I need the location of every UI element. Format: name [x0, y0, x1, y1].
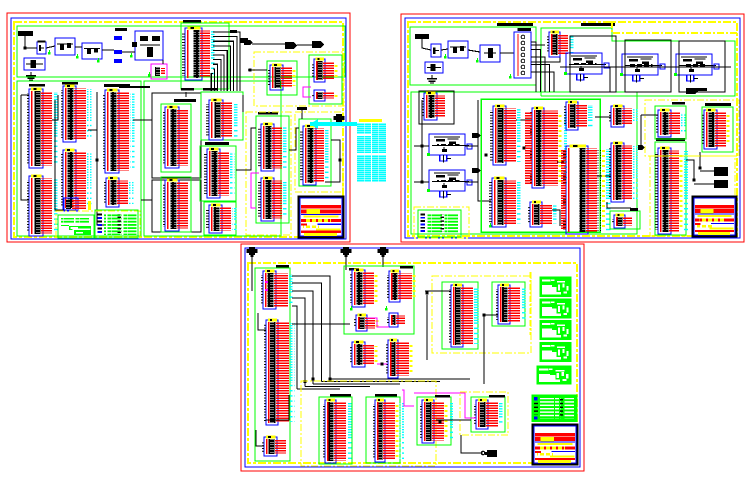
junction: [523, 147, 526, 150]
frame: [204, 202, 236, 235]
EEPROM U20: [268, 64, 295, 90]
label: [489, 395, 505, 398]
opto coupler ISO2: [694, 180, 728, 188]
green wire marker: [148, 72, 151, 77]
wire: [531, 44, 545, 46]
output U50: [420, 399, 453, 443]
wire: [141, 199, 152, 201]
UART U46: [449, 284, 479, 347]
wire: [21, 94, 29, 96]
green wire marker: [130, 53, 133, 58]
wire: [88, 129, 97, 131]
junction: [483, 314, 486, 317]
frame: [610, 211, 640, 229]
title block TB3: [533, 425, 578, 465]
green wire marker: [509, 74, 512, 79]
sheet 2 title text: [497, 23, 533, 26]
green wire marker: [444, 54, 447, 59]
wire: [590, 175, 611, 177]
transistor Q1 box: [480, 45, 500, 62]
bus wire: [119, 86, 150, 88]
wire: [641, 114, 658, 116]
frame: [267, 61, 297, 95]
wire: [414, 181, 429, 183]
power plug P3: [341, 247, 352, 257]
wire: [102, 49, 114, 51]
wire: [55, 100, 64, 210]
magenta link: [377, 363, 387, 365]
port U29: [564, 101, 593, 130]
wire: [301, 110, 303, 119]
test pad TP3: [114, 59, 122, 63]
magenta option box: [151, 64, 167, 79]
latch U15: [204, 148, 235, 198]
bus wire: [305, 386, 370, 388]
green wire marker: [385, 306, 388, 311]
sheet 2 inner border (blue): [405, 18, 740, 238]
wire: [256, 430, 264, 446]
address bus fan-out: [211, 32, 240, 91]
green wire marker: [476, 58, 479, 63]
net flag: [244, 40, 253, 45]
power rail label: [415, 34, 429, 39]
power plug P2: [247, 247, 258, 257]
net flag A: [285, 42, 297, 49]
buffer U44: [350, 341, 377, 367]
RAM U5: [27, 88, 58, 168]
junction: [699, 167, 702, 170]
title block TB1: [299, 197, 344, 238]
wire: [461, 435, 483, 453]
gate U24: [547, 31, 574, 57]
supervisor box outline: [132, 42, 137, 47]
schematic sheet 3 border (red): [241, 244, 584, 471]
frame: [471, 397, 505, 432]
sheet 2 title text 2: [581, 23, 615, 26]
junction: [485, 154, 488, 157]
wire: [133, 119, 152, 121]
relay row wire: [560, 66, 731, 68]
wire: [686, 160, 694, 180]
bus fan-out: [292, 276, 330, 389]
capacitor C1 network: [24, 58, 45, 70]
buffer U45: [386, 339, 412, 378]
driver U47: [496, 284, 526, 324]
buffer U26: [489, 177, 522, 227]
green wire marker: [350, 306, 353, 311]
junction: [426, 292, 429, 295]
connector arrow: [481, 451, 485, 455]
relay K2: [620, 54, 665, 83]
gate U42: [354, 314, 378, 331]
magenta route: [402, 390, 414, 406]
microcontroller U4: [182, 27, 216, 80]
sheet 3 left frame: [255, 268, 290, 461]
junction: [439, 421, 442, 424]
wire: [162, 60, 164, 64]
frame: [319, 397, 352, 464]
schematic sheet 1 border (red): [7, 13, 350, 242]
relay K4: [427, 134, 472, 163]
label: [174, 99, 196, 102]
junction: [421, 181, 424, 184]
gate U35: [656, 109, 686, 137]
CPU U34: [655, 147, 688, 234]
wire: [422, 38, 431, 50]
gate U43: [387, 313, 405, 327]
junction: [693, 179, 696, 182]
sheet 1 mid section frame: [144, 81, 281, 236]
label: [349, 268, 359, 271]
test pad TP1: [114, 36, 122, 40]
decoder U10: [103, 89, 135, 173]
gate U31: [609, 105, 638, 127]
junction: [381, 363, 384, 366]
RAM U6: [27, 175, 58, 236]
wire: [122, 51, 135, 53]
ROM U7: [61, 85, 92, 142]
peripheral container 2: [152, 180, 201, 232]
lower option region: [246, 112, 291, 235]
ROM U8: [61, 149, 92, 210]
crystal cap: [38, 41, 46, 43]
frame: [655, 106, 686, 139]
option part U9: [64, 198, 91, 211]
wire: [426, 295, 428, 360]
net flag: [472, 168, 481, 173]
frame: [309, 55, 342, 104]
wire: [595, 116, 611, 118]
label: [630, 208, 638, 211]
label: [705, 103, 731, 106]
cyan netlist table: [357, 119, 386, 182]
gate U33: [612, 214, 632, 228]
flag column yellow margin: [530, 272, 532, 335]
frame: [702, 107, 733, 152]
IO flag table F4: [540, 343, 571, 362]
sheet 3 inner border (blue): [245, 248, 580, 467]
wire: [46, 46, 55, 48]
buffer U40: [350, 269, 377, 307]
bus fan-out: [531, 42, 554, 92]
power rail label: [18, 31, 33, 36]
bottom region: [301, 381, 436, 466]
sheet 2 margin (yellow dashed): [408, 22, 737, 236]
sheet 2 main section frame: [411, 92, 637, 234]
wire: [325, 140, 340, 182]
relay container 3: [679, 41, 725, 92]
wire: [421, 100, 423, 182]
buffer U14: [206, 99, 238, 140]
latch U16: [206, 204, 237, 233]
label: [115, 28, 127, 31]
column bus wire: [21, 95, 29, 200]
frame: [200, 146, 236, 201]
crystal Y1: [37, 42, 46, 54]
label: [656, 138, 685, 141]
cyan netlist arrow: [310, 119, 357, 129]
bus wire: [313, 383, 400, 385]
option region: [254, 52, 344, 106]
green wire marker: [489, 223, 492, 228]
driver U19: [300, 125, 330, 185]
frame: [161, 104, 191, 172]
sheet 1 top section frame: [17, 26, 345, 77]
wire: [609, 67, 611, 92]
magenta route 2: [414, 393, 476, 418]
notes table T2: [95, 210, 138, 238]
label: [203, 88, 217, 91]
IO flag table F1: [540, 277, 571, 297]
net flag B: [312, 41, 324, 48]
green wire marker: [97, 58, 100, 63]
wire: [640, 115, 642, 145]
green wire marker: [48, 50, 51, 55]
wire: [252, 43, 285, 45]
sheet 1 inner border (blue): [11, 18, 346, 239]
sheet 2 middle inner frame: [481, 99, 600, 232]
reset circuit U3: [135, 31, 163, 60]
table margin: [414, 207, 469, 238]
power plug P1: [334, 114, 345, 124]
input conn U37: [261, 270, 294, 309]
transceiver U27: [525, 107, 567, 188]
RTC U22: [312, 90, 337, 101]
label: [258, 112, 278, 115]
connector J1: [514, 28, 531, 78]
frame: [442, 282, 478, 349]
counter U32: [609, 142, 638, 202]
wire: [52, 95, 58, 120]
bus wire: [330, 378, 470, 380]
filter U52: [422, 92, 445, 120]
right lower margin: [650, 156, 735, 236]
serial region: [432, 276, 531, 353]
yellow margin step: [612, 21, 738, 33]
driver U17: [258, 123, 288, 171]
relay container: [570, 36, 616, 92]
frame: [161, 177, 191, 232]
plug stem wire: [382, 257, 384, 267]
wire: [242, 95, 244, 112]
label: [375, 394, 397, 397]
junction: [312, 378, 315, 381]
bus wire: [292, 323, 350, 325]
junction: [249, 69, 252, 72]
wire: [441, 49, 448, 50]
IO flag table F5: [537, 366, 571, 384]
input filter container: [419, 91, 454, 124]
wire: [25, 47, 37, 49]
frame: [201, 92, 243, 140]
latch U11: [104, 177, 134, 207]
output U48: [323, 399, 352, 463]
relay container 2: [625, 40, 671, 92]
junction: [96, 159, 99, 162]
wire: [236, 128, 256, 170]
bus wire: [322, 381, 441, 383]
MCU section frame: [181, 23, 229, 89]
PIO U13: [163, 179, 188, 231]
power plug P4: [378, 247, 389, 257]
sheet 2 clock section frame: [410, 27, 536, 85]
relay K3: [674, 54, 719, 83]
net flag: [638, 145, 645, 150]
lower option region 2: [295, 112, 343, 192]
junction: [421, 145, 424, 148]
junction: [329, 378, 332, 381]
wire: [297, 44, 312, 46]
net flag: [686, 88, 698, 94]
wire: [468, 50, 480, 52]
label: [435, 395, 450, 398]
label: [672, 102, 685, 105]
junction: [304, 380, 307, 383]
gate U39: [262, 436, 286, 456]
label: [104, 84, 130, 87]
label: [276, 265, 289, 268]
wire: [607, 202, 631, 208]
opto coupler ISO1: [700, 167, 728, 176]
sheet 3 mid frame: [344, 266, 414, 334]
driver U18: [258, 177, 288, 221]
wire: [484, 314, 498, 316]
small region: [460, 392, 508, 435]
wire: [465, 181, 478, 183]
title block TB2: [693, 197, 737, 237]
magenta link wire: [303, 87, 311, 97]
label: [695, 88, 707, 91]
magenta pin marks: [265, 281, 268, 291]
label: [29, 84, 45, 87]
frame: [417, 397, 451, 445]
wire: [24, 36, 26, 48]
magenta jumper wire: [251, 173, 259, 208]
RTC U21: [312, 58, 337, 82]
schematic sheet 2 border (red): [401, 14, 744, 242]
label: [205, 142, 229, 145]
peripheral container: [152, 93, 201, 178]
label: [181, 88, 194, 91]
wire: [500, 52, 514, 54]
plug stem wire: [251, 257, 253, 291]
frame: [366, 397, 400, 463]
capacitor network C2: [425, 62, 443, 73]
wire: [258, 313, 266, 330]
legend table: [532, 395, 577, 422]
output U49: [373, 399, 404, 462]
notes table T3: [418, 210, 461, 237]
output U51: [474, 399, 504, 429]
magenta link: [367, 318, 389, 327]
IO flag table F2: [540, 299, 571, 318]
wire: [465, 145, 478, 147]
wire: [552, 210, 560, 226]
wire: [97, 92, 106, 225]
sheet 2 right top frame: [541, 28, 735, 96]
green wire marker: [76, 54, 79, 59]
plug P5: [485, 450, 497, 457]
ground: [26, 72, 36, 81]
wire: [425, 290, 451, 292]
junction: [339, 159, 342, 162]
relay K1: [564, 53, 609, 82]
wire: [414, 145, 429, 147]
label: [400, 266, 413, 269]
frame: [492, 282, 525, 326]
wire: [266, 395, 289, 420]
label: [330, 394, 351, 397]
crystal Y2: [431, 44, 441, 57]
frame: [655, 142, 686, 235]
driver U36: [702, 109, 729, 149]
wire: [557, 161, 566, 163]
latch U28: [528, 201, 558, 227]
wire: [699, 152, 701, 168]
wire: [75, 46, 82, 48]
relay K5: [427, 170, 472, 199]
label: [62, 82, 78, 85]
wire: [516, 119, 532, 121]
table margin: [56, 211, 140, 238]
wire: [248, 69, 267, 71]
buffer U41: [387, 270, 415, 302]
label: [230, 30, 237, 33]
wire: [289, 128, 299, 150]
buffer U25: [490, 105, 522, 165]
sheet 3 margin (yellow dashed): [248, 263, 577, 463]
bus wire: [478, 100, 491, 201]
net label: [240, 38, 248, 43]
frame: [256, 116, 289, 223]
wire: [531, 45, 560, 62]
ground: [427, 75, 437, 84]
right region: [645, 100, 739, 156]
net flag: [472, 133, 481, 138]
buffer U2: [82, 43, 102, 59]
net stub: [297, 107, 307, 110]
oscillator U23: [448, 41, 468, 58]
frame: [299, 119, 331, 186]
plug stem wire: [345, 257, 347, 270]
sheet 1 main section frame: [17, 81, 141, 236]
junction: [24, 47, 27, 50]
IO flag table F3: [540, 321, 571, 340]
oscillator U1: [55, 38, 75, 55]
wire: [185, 92, 187, 97]
bus wire: [297, 388, 340, 390]
input conn U38: [264, 319, 295, 425]
big IO U30: [561, 145, 611, 234]
wire: [436, 419, 471, 421]
sheet 1 margin (yellow dashed): [14, 22, 343, 237]
revision table T1: [58, 215, 94, 238]
label: [183, 20, 201, 23]
test pad TP2: [114, 50, 122, 54]
wire: [483, 315, 485, 384]
PIO U12: [163, 106, 188, 168]
